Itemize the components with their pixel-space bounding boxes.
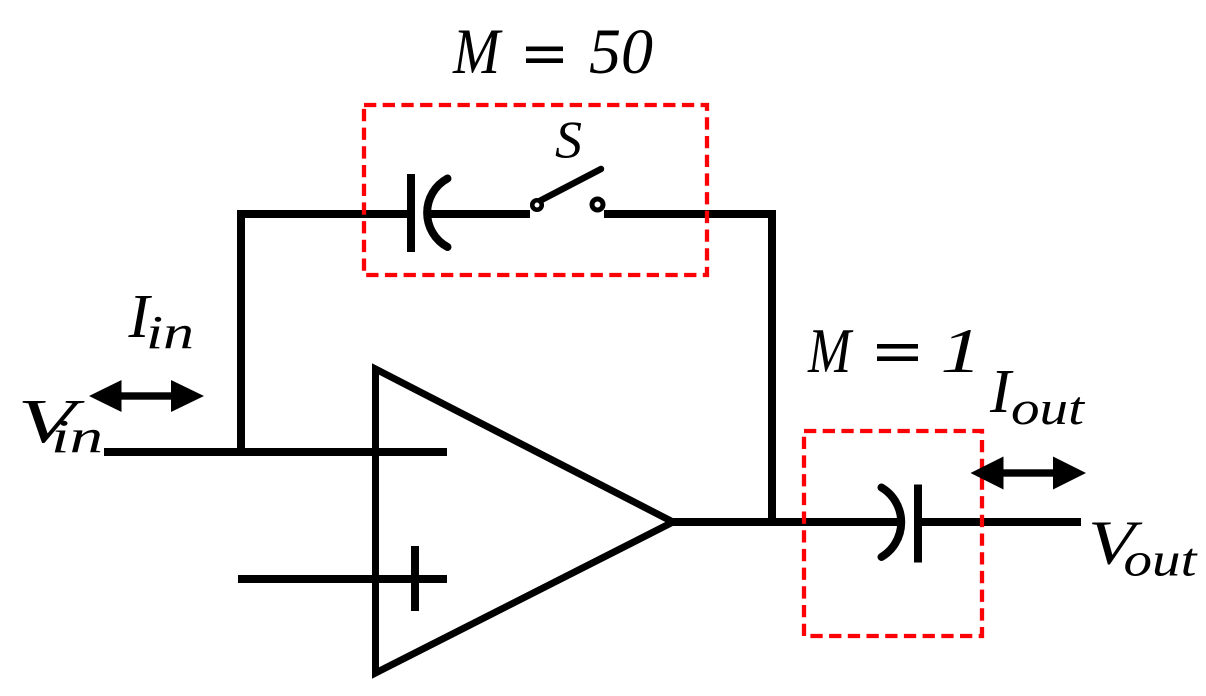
svg-text:in: in (51, 411, 103, 464)
svg-text:1: 1 (941, 315, 982, 386)
svg-text:50: 50 (589, 16, 653, 88)
svg-text:M: M (452, 16, 503, 88)
svg-text:M: M (807, 315, 854, 386)
svg-text:out: out (1011, 382, 1086, 435)
svg-text:in: in (146, 307, 194, 360)
svg-text:S: S (555, 112, 582, 170)
svg-text:out: out (1124, 534, 1199, 587)
